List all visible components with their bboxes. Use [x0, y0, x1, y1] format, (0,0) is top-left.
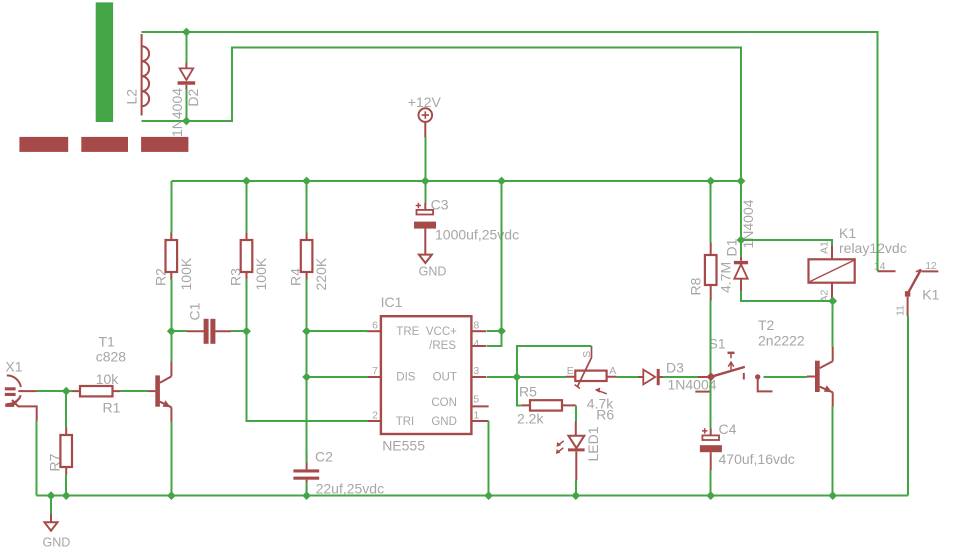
diode D2 [178, 62, 196, 90]
wire R2 column top [170, 181, 172, 233]
wire OUT junction up to pot S [517, 346, 592, 377]
resistor R5 [521, 400, 576, 410]
svg-text:A1: A1 [818, 241, 830, 254]
svg-text:C4: C4 [719, 421, 737, 437]
resistor R7 [60, 427, 72, 475]
svg-text:22uf,25vdc: 22uf,25vdc [316, 481, 385, 497]
wire T2 emitter to bottom rail [832, 406, 834, 496]
relay coil K1 [809, 246, 855, 300]
wire GND drop bottom left [50, 496, 52, 514]
svg-text:L2: L2 [124, 89, 140, 105]
wire pin 3 OUT to junction to R6 E [487, 376, 567, 378]
svg-text:D3: D3 [666, 360, 684, 376]
capacitor C4 [700, 428, 722, 470]
node rail R4 [302, 177, 311, 186]
wire C1 right [231, 330, 247, 332]
red bar 2 [81, 137, 128, 152]
wire X1 lower pin down [36, 421, 38, 496]
wire +12V symbol to rail to C3 [424, 137, 426, 203]
node pin7 R4 [302, 373, 311, 382]
svg-text:relay12vdc: relay12vdc [839, 240, 907, 256]
svg-text:T1: T1 [99, 334, 116, 350]
wire R4 column top [306, 181, 308, 233]
wire R5 to LED1 [575, 405, 577, 421]
node L2 top D2 [182, 28, 191, 37]
svg-text:D1: D1 [724, 238, 740, 256]
svg-text:GND: GND [43, 536, 71, 550]
svg-text:K1: K1 [839, 225, 856, 241]
red bar 1 [19, 137, 68, 152]
svg-text:A: A [609, 365, 616, 377]
wire D1 bottom to relay A2 [741, 291, 833, 301]
+12V supply symbol [419, 108, 433, 137]
svg-text:CON: CON [431, 397, 457, 409]
timer IC1 NE555 box [381, 316, 472, 434]
pin 4 /RES [471, 345, 486, 347]
svg-text:R5: R5 [519, 384, 537, 400]
pin 2 TRI [366, 420, 381, 422]
svg-text:2n2222: 2n2222 [758, 333, 805, 349]
wire R7 top [65, 391, 67, 428]
node rail +12V [421, 177, 430, 186]
wire pin 7 DIS [307, 376, 368, 378]
wire D1 top [740, 181, 742, 257]
switch S1 [695, 353, 772, 392]
svg-text:11: 11 [894, 305, 906, 316]
node X1 R7 R1 [62, 387, 71, 396]
pin 7 DIS [366, 376, 381, 378]
node L2 bottom D2 [182, 117, 191, 126]
resistor R1 [72, 386, 121, 396]
resistor R3 [241, 232, 253, 280]
svg-text:TRI: TRI [396, 416, 415, 428]
svg-text:100K: 100K [253, 257, 269, 290]
wire C2 to bottom rail [306, 482, 308, 496]
node rail R3 [242, 177, 251, 186]
svg-text:TRE: TRE [396, 326, 419, 338]
resistor R4 [301, 232, 313, 280]
wire main +12V rail [171, 180, 741, 182]
svg-text:VCC+: VCC+ [426, 326, 457, 338]
pin 5 CON [471, 405, 488, 407]
wire R8 column top [710, 181, 712, 243]
capacitor C2 [293, 451, 319, 494]
relay contact K1 [877, 270, 938, 317]
node rail GND [47, 491, 56, 500]
svg-text:1: 1 [473, 410, 479, 422]
wire OUT junction down to R5 [517, 377, 522, 405]
wire top rail from L2 top to relay contact 14 [142, 32, 878, 271]
node OUT junction [512, 373, 521, 382]
wire bottom rail [37, 495, 909, 497]
svg-text:8: 8 [473, 320, 479, 332]
svg-text:5: 5 [473, 393, 479, 405]
svg-text:6: 6 [372, 320, 378, 332]
pin 6 TRE [366, 330, 381, 332]
svg-text:R8: R8 [687, 277, 703, 295]
label IC1 pin names [396, 326, 457, 428]
resistor R2 [166, 232, 178, 280]
svg-text:X1: X1 [5, 358, 22, 374]
red bar 3 [141, 137, 188, 152]
wire R4 bottom through pin6 pin7 junctions to C2 [306, 279, 308, 463]
svg-text:E: E [567, 365, 574, 377]
wire R7 bottom [65, 474, 67, 496]
node rail pin8 drop [497, 177, 506, 186]
connector X1 [5, 375, 37, 421]
svg-text:12: 12 [925, 260, 937, 272]
transistor T2 [807, 347, 833, 408]
wire T2 collector to A2 junction [832, 301, 834, 347]
svg-text:7: 7 [372, 365, 378, 377]
wire pin 1 GND drop [488, 421, 490, 496]
svg-text:10k: 10k [96, 371, 120, 387]
svg-text:470uf,16vdc: 470uf,16vdc [719, 451, 795, 467]
svg-text:C1: C1 [187, 302, 203, 320]
svg-text:LED1: LED1 [585, 426, 601, 461]
capacitor C1 [187, 319, 231, 344]
svg-text:GND: GND [419, 265, 447, 279]
node rail C2 [302, 491, 311, 500]
wire R8 bottom to S1 junction to C4 [710, 300, 712, 429]
wire D3 to S1 junction [663, 376, 699, 378]
wire D2 bottom stub [185, 89, 187, 121]
node rail R8 [706, 177, 715, 186]
svg-text:GND: GND [431, 416, 457, 428]
wire R1 to T1 base [120, 390, 149, 392]
node rail R7 [62, 491, 71, 500]
node S1 R8 D3 C4 junction [707, 372, 716, 381]
node pin8 pin4 [497, 327, 506, 336]
wire D2 top stub [185, 32, 187, 63]
node rail T1 emitter [167, 491, 176, 500]
diode D3 [638, 369, 663, 385]
node C1 left [167, 327, 176, 336]
node rail LED1 [571, 491, 580, 500]
node rail T2 emitter [828, 491, 837, 500]
wire R6 A to D3 [617, 376, 639, 378]
node relay A2 T2 collector [828, 297, 837, 306]
pin 8 VCC+ [471, 330, 486, 332]
wire X1 mid pin to R1 [37, 390, 72, 392]
wire R2 bottom to C1 junction to T1 collector [170, 279, 172, 362]
wire A1 to D1 junction [741, 240, 832, 246]
svg-text:T2: T2 [758, 317, 775, 333]
svg-text:OUT: OUT [433, 372, 457, 384]
wire C4 to bottom rail [710, 470, 712, 496]
ground under C3 [419, 255, 432, 263]
node pin6 R4 [302, 327, 311, 336]
svg-text:1N4004: 1N4004 [169, 88, 185, 137]
transistor T1 [149, 361, 172, 422]
svg-text:K1: K1 [922, 287, 939, 303]
svg-text:3: 3 [473, 365, 479, 377]
LED LED1 [556, 421, 585, 481]
pin 1 GND [471, 420, 488, 422]
node C1 right [242, 327, 251, 336]
svg-text:IC1: IC1 [381, 294, 403, 310]
capacitor C3 [414, 203, 436, 254]
svg-text:4.7M: 4.7M [717, 262, 733, 293]
svg-text:2: 2 [372, 410, 378, 422]
pin 3 OUT [471, 376, 486, 378]
green bar [96, 2, 113, 122]
wire pin8 pin4 drop [487, 181, 502, 346]
node rail D1 [737, 177, 746, 186]
svg-text:c828: c828 [96, 349, 127, 365]
wire R3 bottom to TRI pin 2 [247, 279, 369, 421]
svg-text:4: 4 [473, 338, 479, 350]
svg-text:DIS: DIS [396, 372, 416, 384]
wire L2 bottom to second rail to main rail [142, 48, 741, 182]
wire R3 column top [246, 181, 248, 233]
svg-text:100K: 100K [178, 257, 194, 290]
inductor L2 [142, 34, 150, 116]
node rail pin1 [484, 491, 493, 500]
svg-text:R6: R6 [596, 407, 614, 423]
node D1 top relay A1 [737, 236, 746, 245]
node rail C4 [706, 491, 715, 500]
label IC1 pin numbers [372, 320, 479, 422]
svg-text:220K: 220K [313, 257, 329, 290]
svg-text:C2: C2 [315, 449, 333, 465]
svg-text:NE555: NE555 [382, 438, 425, 454]
resistor R8 [705, 242, 717, 301]
wire C1 left [171, 330, 187, 332]
svg-text:R1: R1 [103, 400, 121, 416]
wire right edge up to relay contact 11 [907, 316, 909, 496]
wire S1 to T2 base [764, 376, 808, 378]
wire T1 emitter to bottom rail [170, 422, 172, 496]
potentiometer R6 [566, 346, 617, 394]
diode D1 [734, 256, 748, 291]
svg-text:1000uf,25vdc: 1000uf,25vdc [435, 227, 519, 243]
svg-text:/RES: /RES [429, 340, 456, 352]
wire LED1 to bottom rail [575, 480, 577, 496]
ground bottom left [45, 514, 58, 531]
svg-text:2.2k: 2.2k [517, 411, 544, 427]
wire pin 6 TRE [307, 330, 368, 332]
